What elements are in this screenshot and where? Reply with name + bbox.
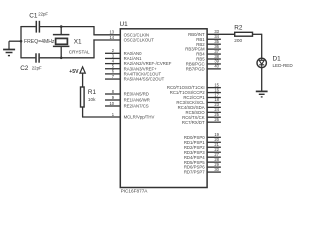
- pin 27 RD4/PSP4 (right): [207, 156, 221, 158]
- svg-text:R2: R2: [234, 25, 243, 32]
- svg-text:10: 10: [109, 101, 114, 106]
- wire: tap to ground: [9, 40, 21, 42]
- resistor R2: [235, 32, 253, 36]
- svg-text:RC7/RX/DT: RC7/RX/DT: [182, 120, 205, 125]
- pin 21 RD2/PSP2 (right): [207, 146, 221, 148]
- wire: left vertical ground bus: [20, 26, 22, 58]
- pin 9 RE1/AN6/WR (left): [105, 99, 120, 101]
- junction node crystal bottom: [60, 57, 63, 60]
- pin 3 RA1/AN1 (left): [105, 57, 120, 59]
- microcontroller U1 PIC16F877A: [120, 29, 207, 188]
- svg-text:RB7/PGD: RB7/PGD: [186, 66, 205, 71]
- pin 25 RC6/TX/CK (right): [207, 116, 221, 118]
- svg-text:MCLR/Vpp/THV: MCLR/Vpp/THV: [124, 115, 155, 120]
- svg-text:26: 26: [214, 117, 219, 122]
- pin 5 RA3/AN3/VREF+ (left): [105, 68, 120, 70]
- svg-text:C1: C1: [29, 13, 38, 20]
- pin 38 RB5 (right): [207, 58, 221, 60]
- pin 17 RC2/CCP1 (right): [207, 96, 221, 98]
- pin 30 RD7/PSP7 (right): [207, 171, 221, 173]
- svg-text:R1: R1: [88, 89, 97, 96]
- svg-text:30: 30: [214, 167, 219, 172]
- capacitor C1: [36, 21, 39, 33]
- wire: R1 to MCLR pin 1: [82, 107, 120, 117]
- pin 16 RC1/T1OSI/CCP2 (right): [207, 92, 221, 94]
- pin 34 RB1 (right): [207, 38, 221, 40]
- svg-text:RD7/PSP7: RD7/PSP7: [184, 170, 205, 175]
- pin 22 RD3/PSP3 (right): [207, 151, 221, 153]
- wire: pin 14 OSC2 out: [93, 39, 120, 41]
- pin 29 RD6/PSP6 (right): [207, 166, 221, 168]
- pin 10 RE2/AN7/CS (left): [105, 105, 120, 107]
- pin 8 RE0/AN5/RD (left): [105, 93, 120, 95]
- svg-text:RE0/AN5/RD: RE0/AN5/RD: [124, 92, 149, 97]
- svg-text:RA5/AN4/SS/C2OUT: RA5/AN4/SS/C2OUT: [124, 77, 165, 82]
- svg-text:OSC2/CLKOUT: OSC2/CLKOUT: [124, 38, 155, 43]
- ground symbol (crystal side): [3, 41, 15, 55]
- junction node crystal top: [60, 25, 63, 28]
- wire: C1 to corner: [40, 26, 94, 28]
- LED D1: [257, 58, 266, 67]
- junction node at ground bus: [20, 40, 23, 43]
- svg-text:22pF: 22pF: [32, 66, 42, 71]
- svg-text:22pF: 22pF: [38, 11, 48, 16]
- pin 18 RC3/SCK/SCL (right): [207, 101, 221, 103]
- svg-text:200: 200: [234, 38, 242, 43]
- pin 37 RB4 (right): [207, 53, 221, 55]
- pin 40 RB7/PGD (right): [207, 68, 221, 70]
- wire: R2 to LED corner: [253, 34, 262, 59]
- pin 19 RD0/PSP0 (right): [207, 136, 221, 138]
- pin 6 RA4/T0CKI/C1OUT (left): [105, 73, 120, 75]
- wire: LED to ground: [261, 67, 263, 91]
- pin 24 RC5/SDO (right): [207, 111, 221, 113]
- pin 15 RC0/T1OSO/T1CKI (right): [207, 87, 221, 89]
- svg-text:D1: D1: [273, 56, 282, 63]
- resistor R1: [81, 87, 85, 107]
- pin 4 RA2/AN2/VREF-/CVREF (left): [105, 63, 120, 65]
- svg-text:+5V: +5V: [69, 69, 79, 75]
- pin 23 RC4/SDI/SDA (right): [207, 106, 221, 108]
- svg-text:U1: U1: [120, 21, 129, 28]
- pin 39 RB6/PGC (right): [207, 63, 221, 65]
- ground symbol (LED side): [256, 91, 268, 97]
- svg-text:RE2/AN7/CS: RE2/AN7/CS: [124, 104, 149, 109]
- pin 20 RD1/PSP1 (right): [207, 141, 221, 143]
- pin 36 RB3/PGM (right): [207, 48, 221, 50]
- svg-text:PIC16F877A: PIC16F877A: [121, 188, 149, 193]
- wire: OSC1 top horizontal (gnd node to C1): [21, 26, 36, 28]
- pin 7 RA5/AN4/SS/C2OUT (left): [105, 78, 120, 80]
- svg-text:40: 40: [214, 64, 219, 69]
- pin 26 RC7/RX/DT (right): [207, 121, 221, 123]
- wire: into pin 13 OSC1: [93, 34, 120, 36]
- svg-text:LED-RED: LED-RED: [273, 63, 294, 68]
- svg-text:RE1/AN6/WR: RE1/AN6/WR: [124, 98, 150, 103]
- wire: vertical down to pin 13: [93, 26, 95, 35]
- svg-text:14: 14: [109, 35, 114, 40]
- svg-text:10k: 10k: [88, 97, 96, 102]
- wire: +5V to R1: [82, 73, 84, 87]
- pin 2 RA0/AN0 (left): [105, 52, 120, 54]
- svg-text:FREQ=4MHz: FREQ=4MHz: [24, 39, 55, 45]
- crystal X1: [53, 27, 70, 58]
- pin 35 RB2 (right): [207, 43, 221, 45]
- capacitor C2: [36, 53, 39, 62]
- +5V power symbol: [80, 67, 85, 73]
- pin 28 RD5/PSP5 (right): [207, 161, 221, 163]
- wire: bottom horizontal (C2 to corner): [40, 57, 95, 59]
- wire: gnd node to C2: [21, 57, 35, 59]
- svg-text:C2: C2: [20, 65, 29, 72]
- wire: vertical down to bottom wire: [93, 39, 95, 57]
- svg-text:CRYSTAL: CRYSTAL: [69, 49, 90, 54]
- svg-text:X1: X1: [74, 39, 82, 46]
- wire: RB0 pin 33 to R2: [207, 33, 235, 35]
